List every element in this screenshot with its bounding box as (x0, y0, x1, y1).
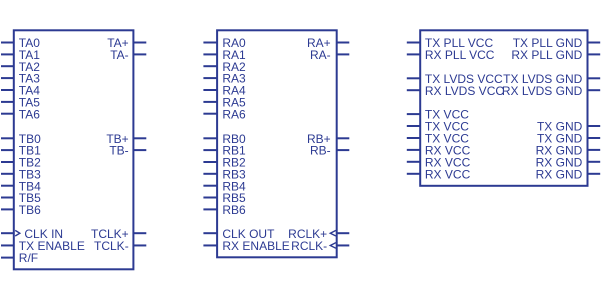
wire pin stub RB- (337, 149, 350, 151)
clock input wedge on CLK IN (15, 230, 20, 236)
wire ground stub TX PLL GND (right 1) (588, 42, 601, 44)
wire pin stub RCLK+ (337, 232, 350, 234)
wire pin stub RB0 (203, 137, 217, 139)
wire pin stub RB4 (203, 185, 217, 187)
svg-text:RB6: RB6 (222, 203, 246, 217)
wire ground stub RX LVDS GND (right 4) (588, 89, 601, 91)
wire power stub RX VCC (left 10) (407, 173, 420, 175)
svg-text:RX ENABLE: RX ENABLE (222, 239, 289, 253)
svg-text:TB-: TB- (109, 144, 128, 158)
svg-text:TB6: TB6 (19, 203, 41, 217)
wire pin stub TB- (133, 149, 146, 151)
svg-text:RX VCC: RX VCC (425, 167, 471, 181)
wire pin stub TB2 (1, 161, 14, 163)
wire pin stub TB6 (1, 208, 14, 210)
svg-text:RX LVDS GND: RX LVDS GND (502, 84, 583, 98)
wire pin stub RA6 (203, 113, 217, 115)
wire power stub TX VCC (left 7) (407, 137, 420, 139)
wire pin stub TA5 (1, 101, 14, 103)
svg-text:TA-: TA- (110, 48, 128, 62)
svg-text:RA6: RA6 (222, 107, 246, 121)
wire pin stub RB3 (203, 173, 217, 175)
deserializer block U2 body (217, 30, 337, 257)
wire pin stub TA+ (133, 42, 146, 44)
clock input wedge on RCLK- (330, 243, 336, 249)
wire pin stub TA1 (1, 53, 14, 55)
svg-text:RA-: RA- (310, 48, 331, 62)
wire pin stub RB1 (203, 149, 217, 151)
wire pin stub RA4 (203, 89, 217, 91)
wire pin stub RB+ (337, 137, 350, 139)
wire power stub RX VCC (left 9) (407, 161, 420, 163)
wire power stub TX VCC (left 5) (407, 113, 420, 115)
svg-text:TA6: TA6 (19, 107, 40, 121)
wire pin stub TCLK+ (133, 232, 146, 234)
wire pin stub TX ENABLE (1, 244, 14, 246)
svg-text:TCLK-: TCLK- (94, 239, 129, 253)
wire pin stub TA3 (1, 77, 14, 79)
wire pin stub TCLK- (133, 244, 146, 246)
wire pin stub RCLK- (337, 244, 350, 246)
wire pin stub RB5 (203, 197, 217, 199)
svg-text:RB-: RB- (310, 144, 331, 158)
wire pin stub RA5 (203, 101, 217, 103)
svg-text:RX GND: RX GND (536, 167, 583, 181)
wire pin stub RA+ (337, 42, 350, 44)
wire pin stub TB+ (133, 137, 146, 139)
wire pin stub R/F (1, 257, 14, 259)
wire pin stub RB2 (203, 161, 217, 163)
wire pin stub RA- (337, 53, 350, 55)
wire pin stub RA2 (203, 65, 217, 67)
wire pin stub TB5 (1, 197, 14, 199)
serializer block U1 body (14, 30, 134, 269)
power block U3 body (420, 30, 587, 186)
wire pin stub TA6 (1, 113, 14, 115)
svg-text:RCLK-: RCLK- (291, 239, 327, 253)
svg-text:RX LVDS VCC: RX LVDS VCC (425, 84, 504, 98)
wire pin stub TB4 (1, 185, 14, 187)
wire pin stub TA2 (1, 65, 14, 67)
wire ground stub RX GND (right 8) (588, 161, 601, 163)
wire pin stub TB3 (1, 173, 14, 175)
wire pin stub RB6 (203, 208, 217, 210)
wire power stub TX VCC (left 6) (407, 125, 420, 127)
svg-text:RX PLL GND: RX PLL GND (511, 48, 582, 62)
wire pin stub RA1 (203, 53, 217, 55)
wire pin stub TB0 (1, 137, 14, 139)
wire ground stub RX PLL GND (right 2) (588, 53, 601, 55)
wire ground stub TX GND (right 5) (588, 125, 601, 127)
clock input wedge on RCLK+ (330, 230, 336, 236)
svg-text:R/F: R/F (19, 251, 38, 265)
svg-text:RX PLL VCC: RX PLL VCC (425, 48, 495, 62)
wire power stub RX VCC (left 8) (407, 149, 420, 151)
wire ground stub RX GND (right 9) (588, 173, 601, 175)
wire power stub RX PLL VCC (left 2) (407, 53, 420, 55)
wire power stub TX LVDS VCC (left 3) (407, 77, 420, 79)
wire pin stub RA0 (203, 42, 217, 44)
wire pin stub TA0 (1, 42, 14, 44)
wire ground stub TX LVDS GND (right 3) (588, 77, 601, 79)
wire pin stub RX ENABLE (203, 244, 217, 246)
wire ground stub RX GND (right 7) (588, 149, 601, 151)
wire pin stub TB1 (1, 149, 14, 151)
wire pin stub TA- (133, 53, 146, 55)
wire power stub TX PLL VCC (left 1) (407, 42, 420, 44)
wire pin stub TA4 (1, 89, 14, 91)
wire ground stub TX GND (right 6) (588, 137, 601, 139)
wire pin stub CLK OUT (203, 232, 217, 234)
wire power stub RX LVDS VCC (left 4) (407, 89, 420, 91)
wire pin stub CLK IN (1, 232, 14, 234)
wire pin stub RA3 (203, 77, 217, 79)
